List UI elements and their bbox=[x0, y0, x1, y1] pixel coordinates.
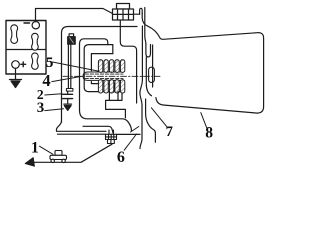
svg-text:3: 3 bbox=[37, 100, 45, 116]
svg-text:6: 6 bbox=[117, 149, 125, 166]
svg-text:5: 5 bbox=[46, 55, 54, 71]
svg-text:1: 1 bbox=[31, 139, 39, 156]
svg-text:8: 8 bbox=[205, 124, 213, 141]
svg-text:7: 7 bbox=[166, 124, 173, 140]
svg-text:4: 4 bbox=[42, 71, 50, 90]
